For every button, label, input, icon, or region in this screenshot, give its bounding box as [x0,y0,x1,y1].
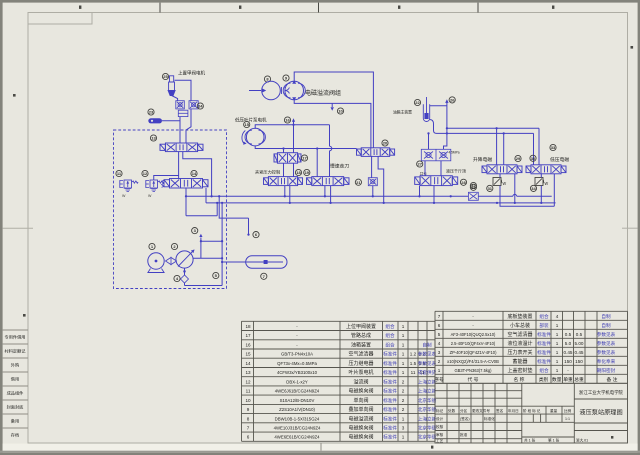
svg-text:2: 2 [438,359,441,364]
electric motor M1 [148,253,164,269]
level gauge cup [423,97,429,122]
svg-text:参数见表: 参数见表 [597,340,616,347]
right distribution line [447,128,539,165]
pressure gauge PG1 [148,118,162,123]
svg-text:标准件: 标准件 [383,369,397,376]
svg-text:1: 1 [438,368,441,373]
svg-text:7: 7 [247,426,250,431]
svg-text:标准化: 标准化 [484,416,495,421]
suction filter F2 [181,275,189,283]
svg-text:油箱装置: 油箱装置 [351,341,371,348]
balloon b22 [414,99,420,105]
svg-text:DBW10B-1-5X/315G24: DBW10B-1-5X/315G24 [275,416,320,421]
svg-text:备 注: 备 注 [607,376,618,383]
svg-text:DBX-1-x2Y: DBX-1-x2Y [286,379,308,384]
svg-text:3: 3 [438,350,441,355]
svg-text:标准件: 标准件 [537,349,551,356]
wire gauge riser [444,102,447,150]
svg-text:1: 1 [402,324,405,329]
svg-text:标准件: 标准件 [383,388,397,395]
svg-text:W: W [122,194,126,198]
svg-text:成品组件: 成品组件 [7,390,24,397]
wire cup bottom elbow [430,120,534,165]
svg-text:上盖密封垫: 上盖密封垫 [507,367,532,374]
svg-text:17: 17 [302,156,307,161]
V2 left spring [162,180,164,187]
svg-text:部装: 部装 [539,322,549,329]
svg-text:16: 16 [245,342,251,347]
window edge right [638,0,640,455]
svg-text:QF73x-4Mx=0.5MPa: QF73x-4Mx=0.5MPa [277,361,317,366]
wire block down to valve [425,161,441,176]
drain arrow [331,103,333,107]
balloon b1 [149,243,155,249]
svg-text:11: 11 [411,370,416,375]
svg-text:单重: 单重 [563,376,573,383]
svg-text:1: 1 [402,361,405,366]
svg-text:34: 34 [531,186,536,191]
svg-text:0.5: 0.5 [565,332,572,337]
svg-text:北京华德: 北京华德 [418,397,437,404]
svg-text:33: 33 [551,145,556,150]
parts list table left [242,321,436,441]
bus P line [186,194,552,196]
svg-text:2: 2 [402,398,405,403]
wire junction [446,127,448,129]
svg-text:参数见表: 参数见表 [418,360,437,367]
svg-text:液压泵站原理图: 液压泵站原理图 [579,409,622,417]
wire junction [433,202,435,204]
balloon b32 [470,182,476,188]
svg-text:空气滤清器: 空气滤清器 [507,331,532,338]
svg-text:20: 20 [383,141,388,146]
svg-text:电磁换向阀: 电磁换向阀 [348,388,373,395]
wire junction [427,132,429,134]
wire junction [247,233,249,235]
svg-text:上位甲阀装置: 上位甲阀装置 [346,323,376,330]
balloon b12 [142,170,148,176]
pump P1 [176,251,193,268]
balloon b20 [382,140,388,146]
svg-text:w: w [503,181,507,187]
svg-text:标准件: 标准件 [383,415,397,422]
svg-text:0.5: 0.5 [576,332,583,337]
wire lower bus turns into V5 left [316,149,318,177]
svg-text:升降电磁: 升降电磁 [473,156,492,163]
valve V6 4/3 [357,148,395,157]
svg-text:6: 6 [247,435,250,440]
svg-text:5.0: 5.0 [565,341,572,346]
svg-text:自制: 自制 [422,341,432,348]
wire junction [540,202,542,204]
svg-text:低压叶片泵电机: 低压叶片泵电机 [235,116,267,123]
svg-text:朝阳密封: 朝阳密封 [597,367,616,374]
svg-text:1: 1 [556,350,559,355]
balloon b30 [530,155,536,161]
wire V1 port down left [178,152,180,179]
svg-text:6: 6 [438,323,441,328]
wire pump top loop [294,72,373,148]
double check block [421,149,451,161]
pump P2 [285,81,304,100]
svg-text:自制: 自制 [601,313,611,320]
svg-text:上海立新: 上海立新 [418,415,437,422]
svg-text:2.5-40F10(QF4xV-4F10): 2.5-40F10(QF4xV-4F10) [451,341,496,346]
svg-text:浙江工业大学机电学院: 浙江工业大学机电学院 [579,389,624,396]
svg-text:1.5: 1.5 [410,361,417,366]
svg-text:1: 1 [402,416,405,421]
wire junction [446,132,448,134]
wire junction [329,202,331,204]
wire V8 bottom collector [500,174,554,207]
relief valve RV1 [120,180,138,192]
wire V4 drops [285,186,290,203]
wire junction [383,202,385,204]
wire junction [372,195,374,197]
svg-text:参数见表: 参数见表 [418,351,437,358]
svg-text:23: 23 [149,110,154,115]
balloon b16 [284,117,290,123]
wire pump suction [184,268,186,275]
bottom edge centring mark [320,443,322,451]
svg-text:标准件: 标准件 [383,360,397,367]
svg-text:2: 2 [402,389,405,394]
wire junction [292,124,294,126]
check valve CVX [368,178,377,186]
wire junction [221,240,223,242]
svg-text:Z2S10A1/V(DN10): Z2S10A1/V(DN10) [279,407,315,412]
wire junction [316,147,318,149]
svg-text:签名: 签名 [496,408,504,413]
balloon b3 [192,228,198,234]
svg-text:150: 150 [575,359,583,364]
svg-text:组合: 组合 [539,313,549,320]
wire junction [282,147,284,149]
balloon b34 [530,185,536,191]
balloon b24 [197,103,203,109]
svg-text:15: 15 [244,122,249,127]
balloon b18b [304,169,310,175]
svg-text:9: 9 [247,407,250,412]
balloon b4 [174,275,180,281]
svg-text:组合: 组合 [385,332,395,339]
balloon b31 [487,185,493,191]
svg-text:25: 25 [163,74,168,79]
balloon b25 [162,73,168,79]
svg-text:参数见表: 参数见表 [597,331,616,338]
wire junction [221,257,223,259]
svg-text:4: 4 [438,341,441,346]
wire V9 bottom drop [540,174,542,203]
svg-text:(签名): (签名) [460,416,470,421]
svg-text:12: 12 [245,379,251,384]
svg-text:底板垫装置: 底板垫装置 [507,313,532,320]
wire V1 port down right [183,152,212,197]
svg-text:叠加单向阀: 叠加单向阀 [348,406,373,413]
svg-text:工艺: 工艺 [436,438,444,443]
wire manifold down left [179,117,181,143]
svg-text:处数: 处数 [448,408,456,413]
wire junction [289,202,291,204]
svg-text:1:1: 1:1 [565,417,570,421]
svg-text:代 号: 代 号 [468,376,479,383]
svg-text:17: 17 [245,333,251,338]
svg-text:北京华德: 北京华德 [418,406,437,413]
bottom margin strip [3,444,638,451]
svg-text:35: 35 [471,185,476,190]
svg-text:18: 18 [245,324,251,329]
wire V5 drops [325,186,331,203]
throttle check T1 [493,178,507,188]
wire P-T link [186,203,217,216]
svg-text:1: 1 [402,342,405,347]
balloon b10 [337,108,343,114]
wire gauge top link [430,105,447,107]
valve V7 4/3 [415,176,458,186]
svg-text:1: 1 [402,352,405,357]
svg-text:重量: 重量 [550,408,558,413]
wire V3 down to V4 [284,163,294,176]
svg-text:13: 13 [245,370,251,375]
coupling [166,257,177,264]
wire bottom collect [185,285,223,287]
svg-text:自制: 自制 [601,322,611,329]
svg-text:1: 1 [556,368,559,373]
svg-text:14: 14 [245,361,251,366]
balloon b17 [301,155,307,161]
svg-text:1: 1 [556,341,559,346]
svg-text:电磁溢流阀组: 电磁溢流阀组 [305,89,341,97]
svg-text:1: 1 [402,370,405,375]
svg-text:AF3-40F10(QUQ2.5x10): AF3-40F10(QUQ2.5x10) [451,332,496,337]
svg-text:4CFW3x/YB3100x10: 4CFW3x/YB3100x10 [277,370,318,375]
hydraulic motor HM1 [262,81,281,100]
svg-text:8: 8 [247,416,250,421]
svg-text:0.45: 0.45 [564,350,573,355]
svg-text:28: 28 [461,180,466,185]
balloon b9 [283,75,289,81]
svg-text:管路总成: 管路总成 [351,332,371,339]
svg-text:27: 27 [417,162,422,167]
balloon b35 [470,184,476,190]
wire filter to check valve [172,96,178,102]
svg-text:共 1 张: 共 1 张 [524,438,536,443]
svg-text:4WE10J31B/CG24N9Z4: 4WE10J31B/CG24N9Z4 [274,426,321,431]
valve V9 4/3 [526,165,566,174]
svg-text:共亏: 共亏 [420,171,428,176]
svg-text:比例: 比例 [564,408,572,413]
svg-text:组合: 组合 [385,341,395,348]
balloon b33 [550,144,556,150]
svg-text:10: 10 [338,109,343,114]
balloon b6 [253,232,259,238]
relief valve RV2 [146,180,164,192]
svg-text:标准件: 标准件 [537,358,551,365]
svg-text:2: 2 [402,407,405,412]
wire junction [216,202,218,204]
wire junction [210,195,212,197]
svg-text:夹紧压力控制: 夹紧压力控制 [255,169,280,176]
bottom edge tick [431,446,433,449]
wire accumulator feed [222,261,246,263]
wire junction [218,195,220,197]
valve V4 4/3 [264,177,303,186]
svg-text:12: 12 [143,171,148,176]
svg-text:类别: 类别 [539,376,549,383]
svg-text:成套供货: 成套供货 [418,369,437,376]
bus T line [206,202,556,204]
svg-text:GB3T-PN363(7.5kg): GB3T-PN363(7.5kg) [454,368,492,373]
svg-text:1: 1 [556,332,559,337]
svg-text:标准件: 标准件 [537,331,551,338]
svg-text:1: 1 [402,333,405,338]
balloon b27 [417,161,423,167]
svg-text:14: 14 [192,171,197,176]
svg-text:1.2: 1.2 [410,352,417,357]
wire pump riser joins B [201,240,222,242]
valve V8 4/3 [482,165,522,174]
svg-text:第 1 张: 第 1 张 [548,438,560,443]
wire V6 right port down [378,156,384,203]
right edge tick [631,46,634,49]
svg-text:5.00: 5.00 [575,341,584,346]
balloon b14 [191,170,197,176]
wire vent riser w/arrow [293,120,295,125]
svg-text:4.5MPa: 4.5MPa [449,151,460,155]
wire block up left [428,133,430,149]
svg-text:借用: 借用 [11,376,19,383]
svg-text:1: 1 [556,359,559,364]
svg-text:7: 7 [438,314,441,319]
svg-text:w: w [545,181,549,187]
svg-text:11: 11 [246,389,251,394]
svg-text:批准: 批准 [460,432,468,437]
wire junction [221,261,223,263]
svg-text:序号: 序号 [434,376,444,383]
svg-text:标准件: 标准件 [383,378,397,385]
top-left zone box [28,13,92,25]
title block [435,383,628,443]
svg-text:31: 31 [488,186,493,191]
left edge tick [13,94,16,97]
svg-text:专用件借用: 专用件借用 [5,334,26,341]
svg-text:浙大.01: 浙大.01 [576,438,588,443]
wire stub riser A [219,196,248,234]
left centring mark [3,227,33,229]
wire junction [284,195,286,197]
balloon b15 [244,121,250,127]
svg-text:年月日: 年月日 [508,408,519,413]
wire junction [503,132,505,134]
svg-text:液位液温计: 液位液温计 [507,340,532,347]
svg-text:备用: 备用 [11,418,19,425]
check valve CV2 [189,101,198,109]
throttle check T2 [535,178,549,188]
svg-text:x10(NXQ2)/F4/31.5-A-CV0B: x10(NXQ2)/F4/31.5-A-CV0B [447,359,499,364]
svg-text:1: 1 [402,435,405,440]
check valve CV1 [176,101,185,109]
svg-text:总重: 总重 [574,376,584,383]
wire junction [495,127,497,129]
svg-text:3: 3 [402,426,405,431]
svg-text:溢流阀: 溢流阀 [353,378,368,385]
wire junction [185,195,187,197]
svg-text:29: 29 [516,156,521,161]
svg-text:阶 段 标 记: 阶 段 标 记 [523,408,541,413]
wire gauge to riser [162,120,180,122]
svg-text:组合: 组合 [539,367,549,374]
accumulator A1 [246,256,287,268]
bus lower from P3 [255,146,356,149]
svg-text:电磁换向阀: 电磁换向阀 [348,434,373,441]
svg-text:油箱主装置: 油箱主装置 [393,110,412,115]
balloon b8 [264,76,270,82]
left margin tick top [23,314,26,317]
svg-text:0.45: 0.45 [575,350,584,355]
wire pump outlet [193,257,222,259]
svg-text:30: 30 [531,156,536,161]
svg-text:审核: 审核 [436,432,444,437]
svg-text:标准件: 标准件 [537,340,551,347]
window edge top [0,0,640,3]
svg-text:蓄能器: 蓄能器 [512,358,527,365]
wire inlet arrow [249,90,261,92]
svg-text:标准件: 标准件 [383,425,397,432]
wire junction [450,195,452,197]
svg-text:液压千斤顶: 液压千斤顶 [446,167,466,173]
coupling 2 [282,87,290,94]
balloon b18 [295,169,301,175]
svg-text:18: 18 [296,170,301,175]
balloon b21 [355,179,361,185]
wire pump bottom line [294,100,371,148]
balloon b7 [261,273,267,279]
svg-text:单向阀: 单向阀 [353,397,368,404]
wire V8 top risers [497,128,504,165]
balloon b26 [449,97,455,103]
svg-text:标准件: 标准件 [383,406,397,413]
power unit dashed enclosure [114,130,227,289]
balloon b29 [515,155,521,161]
svg-text:标准件: 标准件 [383,434,397,441]
svg-text:4WE6E61B/CG24N9Z4: 4WE6E61B/CG24N9Z4 [274,435,320,440]
svg-text:24: 24 [198,104,203,109]
svg-text:电磁换向阀: 电磁换向阀 [348,425,373,432]
wire junction [200,240,202,242]
svg-text:空气滤清器: 空气滤清器 [348,351,373,358]
svg-text:封面封底: 封面封底 [7,404,24,411]
vane pump P3 [246,128,264,146]
window edge bottom [0,451,640,453]
svg-text:组合: 组合 [385,323,395,330]
right edge tick 2 [611,436,613,439]
svg-text:标准件: 标准件 [383,397,397,404]
wire upper bus turns into V5 [330,125,332,177]
valve V1 4/3 [160,143,203,152]
svg-text:15: 15 [245,352,251,357]
svg-text:W: W [148,194,152,198]
balloon b5 [213,272,219,278]
svg-text:4: 4 [556,314,559,319]
svg-text:26: 26 [450,98,455,103]
svg-text:上置甲阀电机: 上置甲阀电机 [178,70,205,77]
svg-text:奉化奉来: 奉化奉来 [597,358,616,365]
svg-text:5: 5 [438,332,441,337]
svg-text:慢速走刀: 慢速走刀 [330,162,349,169]
wire junction [418,195,420,197]
left margin revision strip [3,330,28,428]
balloon b11 [116,170,122,176]
